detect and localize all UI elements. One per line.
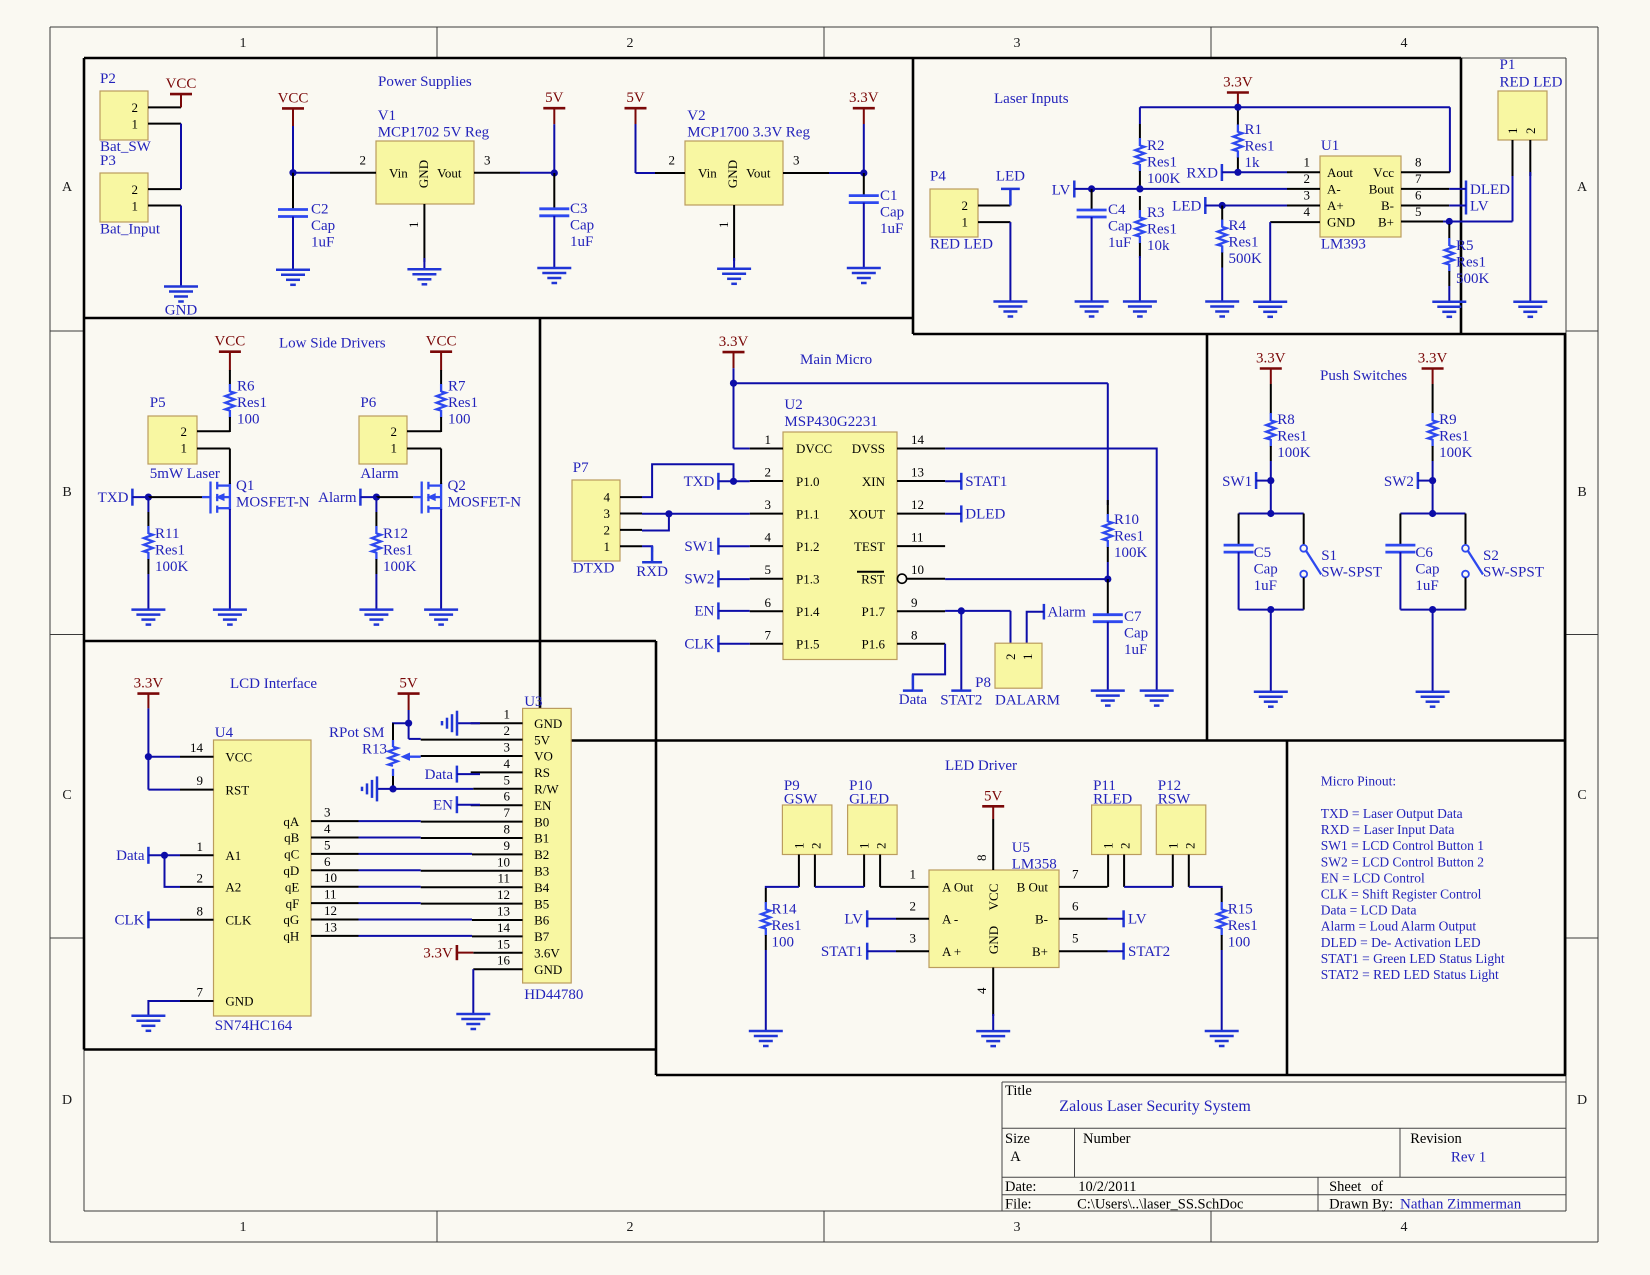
pin 2 [421, 739, 523, 741]
svg-text:Data: Data [899, 692, 928, 708]
wire P4.1 to ground [1009, 222, 1011, 301]
pin 12 [421, 903, 523, 905]
port DLED [945, 505, 1005, 522]
wire C7 to ground [1107, 622, 1109, 691]
svg-text:A: A [62, 180, 73, 195]
svg-text:1: 1 [857, 843, 872, 850]
port TXD [98, 489, 152, 506]
svg-text:Rev 1: Rev 1 [1451, 1150, 1486, 1166]
svg-text:Vin: Vin [698, 166, 717, 181]
wire U5 GND to ground [992, 1014, 994, 1031]
connector P1 RED LED [1498, 57, 1563, 176]
svg-text:8: 8 [504, 822, 511, 837]
svg-text:Res1: Res1 [1228, 918, 1258, 934]
connector P5 5mW Laser [148, 395, 230, 482]
svg-text:B: B [1577, 485, 1586, 500]
pin 3 [896, 950, 929, 952]
ground [407, 269, 441, 284]
svg-text:1: 1 [716, 222, 731, 229]
svg-text:1: 1 [391, 441, 398, 456]
wire R3 to ground [1139, 256, 1141, 302]
svg-text:LV: LV [1052, 182, 1071, 198]
svg-text:qF: qF [286, 896, 300, 911]
svg-text:B3: B3 [534, 864, 549, 879]
svg-text:GSW: GSW [784, 792, 818, 808]
pin 5 [473, 788, 522, 790]
wire U1 GND to ground [1269, 222, 1271, 302]
svg-text:5: 5 [504, 772, 511, 787]
pin 11 [897, 545, 945, 547]
wire qG to B6 [359, 919, 473, 921]
resistor R12 [372, 512, 381, 574]
connector P12 RSW [1156, 778, 1206, 887]
port LV [1449, 198, 1489, 215]
svg-text:VCC: VCC [278, 90, 309, 106]
svg-text:B4: B4 [534, 880, 550, 895]
svg-text:Size: Size [1005, 1131, 1030, 1147]
svg-text:Drawn By:: Drawn By: [1329, 1197, 1393, 1213]
svg-text:2: 2 [627, 1220, 634, 1235]
wire qC to B2 [359, 853, 473, 855]
svg-text:4: 4 [765, 530, 772, 545]
pin 12 [897, 513, 945, 515]
pin 1 [471, 722, 523, 724]
port CLK [115, 911, 181, 928]
resistor R2 [1135, 124, 1144, 186]
svg-text:GND: GND [1327, 215, 1355, 230]
resistor R5 [1445, 224, 1454, 286]
svg-text:500K: 500K [1229, 251, 1263, 267]
svg-text:qE: qE [285, 879, 300, 894]
svg-text:R2: R2 [1147, 138, 1165, 154]
svg-text:3.3V: 3.3V [719, 334, 749, 350]
svg-text:11: 11 [911, 530, 924, 545]
svg-text:B7: B7 [534, 929, 550, 944]
wire R10 to RST node [1107, 562, 1109, 579]
svg-text:VCC: VCC [166, 76, 197, 92]
port SW2 [1384, 472, 1436, 490]
svg-text:EN: EN [694, 604, 714, 620]
svg-text:C4: C4 [1108, 202, 1126, 218]
svg-text:C5: C5 [1254, 545, 1272, 561]
capacitor C4 [1091, 189, 1093, 210]
svg-text:3: 3 [604, 506, 611, 521]
svg-text:B1: B1 [534, 831, 549, 846]
pin 13 [472, 919, 523, 921]
connector P8 DALARM [975, 643, 1060, 708]
port Data [425, 766, 480, 784]
wire qF to B5 [359, 902, 421, 904]
port EN [694, 602, 749, 619]
pin 1 [1287, 171, 1320, 173]
svg-text:SW2 = LCD Control Button 2: SW2 = LCD Control Button 2 [1321, 854, 1484, 869]
port CLK [684, 635, 749, 652]
wire R4 to ground [1221, 268, 1223, 302]
svg-text:P1.0: P1.0 [796, 474, 819, 489]
svg-text:STAT1 = Green LED Status Light: STAT1 = Green LED Status Light [1321, 951, 1505, 966]
wire U3 pin1 to earth [457, 722, 480, 724]
svg-text:2: 2 [132, 182, 139, 197]
svg-text:2: 2 [1118, 843, 1133, 850]
svg-text:MCP1702 5V Reg: MCP1702 5V Reg [378, 125, 490, 141]
svg-text:LED Driver: LED Driver [945, 758, 1017, 774]
svg-text:12: 12 [911, 497, 924, 512]
svg-text:Res1: Res1 [237, 395, 267, 411]
svg-text:P8: P8 [975, 675, 991, 691]
wire DVSS run [945, 449, 1157, 691]
svg-text:2: 2 [604, 522, 611, 537]
svg-text:100: 100 [448, 412, 471, 428]
svg-text:MOSFET-N: MOSFET-N [448, 495, 522, 511]
svg-text:RXD: RXD [1186, 165, 1218, 181]
svg-text:1uF: 1uF [311, 235, 334, 251]
svg-text:RXD: RXD [636, 564, 668, 580]
svg-text:P4: P4 [930, 169, 946, 185]
ground [359, 610, 393, 625]
svg-text:2: 2 [132, 100, 139, 115]
svg-text:DLED = De- Activation LED: DLED = De- Activation LED [1321, 935, 1481, 950]
pin 4 [471, 771, 523, 773]
svg-text:4: 4 [604, 490, 611, 505]
svg-text:3: 3 [1014, 1220, 1021, 1235]
wire C4 to ground [1091, 217, 1093, 302]
resistor R11 [144, 512, 153, 574]
svg-text:3.3V: 3.3V [134, 676, 164, 692]
wire P1.6 to Data stub [913, 644, 945, 685]
svg-text:2: 2 [504, 723, 511, 738]
pin 2 [620, 529, 642, 531]
svg-text:SW1: SW1 [1222, 474, 1252, 490]
svg-text:2: 2 [181, 424, 188, 439]
power port 3.3V [1418, 351, 1448, 385]
wire U4 GND to ground [148, 1001, 180, 1016]
svg-text:8: 8 [911, 627, 918, 642]
svg-text:SW2: SW2 [684, 572, 714, 588]
svg-text:14: 14 [190, 740, 204, 755]
svg-text:DVCC: DVCC [796, 441, 832, 456]
svg-text:Cap: Cap [880, 205, 904, 221]
pin 4 [311, 837, 359, 839]
svg-text:Cap: Cap [1415, 562, 1439, 578]
svg-text:Push Switches: Push Switches [1320, 368, 1407, 384]
svg-text:of: of [1371, 1179, 1383, 1195]
svg-text:2: 2 [360, 153, 367, 168]
svg-text:qH: qH [283, 929, 299, 944]
wire Q1 source to ground [229, 509, 231, 610]
svg-text:R4: R4 [1229, 218, 1247, 234]
wire qH to B7 [359, 935, 473, 937]
svg-text:1uF: 1uF [1108, 235, 1131, 251]
svg-text:XIN: XIN [862, 474, 886, 489]
svg-text:P6: P6 [360, 395, 376, 411]
svg-text:A: A [1010, 1149, 1021, 1165]
wire P5.1 to Q1 drain [229, 449, 231, 485]
svg-text:A +: A + [942, 944, 961, 959]
pin 11 [421, 886, 523, 888]
pin 2 [655, 172, 685, 174]
wire R8 to SW1 node [1270, 461, 1272, 481]
svg-text:Cap: Cap [1124, 626, 1148, 642]
svg-text:3.3V: 3.3V [1223, 75, 1253, 91]
svg-text:STAT1: STAT1 [821, 944, 863, 960]
capacitor C2 plates [278, 210, 308, 217]
pin 2 [180, 886, 214, 888]
pin 3 [750, 513, 783, 515]
port Alarm [1027, 604, 1086, 643]
IC U2 MSP430G2231 [750, 397, 945, 660]
wire qB to B1 [359, 837, 421, 839]
svg-text:11: 11 [324, 887, 337, 902]
IC U3 HD44780 [421, 694, 584, 1003]
svg-text:RPot SM: RPot SM [329, 725, 384, 741]
power port VCC [214, 334, 245, 371]
ground [213, 610, 247, 625]
port Data stub [899, 674, 928, 708]
port LV [844, 910, 896, 927]
svg-text:R15: R15 [1228, 902, 1253, 918]
svg-text:GND: GND [986, 926, 1001, 954]
svg-text:LED: LED [996, 169, 1025, 185]
svg-text:R8: R8 [1277, 412, 1295, 428]
svg-text:6: 6 [504, 789, 511, 804]
svg-text:7: 7 [504, 805, 511, 820]
resistor R15 [1217, 888, 1226, 950]
svg-text:1: 1 [504, 707, 511, 722]
svg-text:5: 5 [1072, 931, 1079, 946]
port TXD [684, 473, 750, 490]
wire 5V node [393, 710, 421, 740]
svg-text:A -: A - [942, 912, 958, 927]
svg-text:RST: RST [861, 571, 885, 586]
svg-text:Micro Pinout:: Micro Pinout: [1321, 773, 1396, 788]
wire R12 to ground [375, 497, 377, 512]
port RXD stub [636, 546, 668, 580]
wire parallel bus bottom [1239, 606, 1304, 692]
wire P2.1 to P3.2 [180, 124, 182, 190]
svg-text:4: 4 [504, 756, 511, 771]
svg-text:GND: GND [534, 962, 562, 977]
resistor R6 [225, 370, 234, 432]
pin 2 [1188, 855, 1190, 887]
pin 6 [471, 804, 523, 806]
pin 14 [897, 448, 945, 450]
pin 6 [1401, 205, 1449, 207]
wire P9.1 to R14 [766, 887, 799, 888]
svg-text:5: 5 [324, 837, 331, 852]
svg-text:B+: B+ [1378, 215, 1394, 230]
svg-text:LED: LED [1172, 199, 1201, 215]
svg-text:7: 7 [1415, 171, 1422, 186]
power port 3.3V [719, 334, 749, 368]
svg-text:Data: Data [425, 767, 454, 783]
wire Q2 source to ground [440, 509, 442, 610]
pin 2 [330, 172, 376, 174]
svg-text:VCC: VCC [986, 884, 1001, 911]
svg-text:Zalous Laser Security System: Zalous Laser Security System [1059, 1098, 1251, 1115]
power port 3.3V [134, 676, 164, 709]
svg-text:Cap: Cap [1254, 562, 1278, 578]
svg-text:1k: 1k [1245, 155, 1261, 171]
svg-text:Res1: Res1 [155, 543, 185, 559]
svg-text:Date:: Date: [1005, 1179, 1036, 1195]
svg-text:B Out: B Out [1017, 880, 1049, 895]
ground [1432, 302, 1466, 317]
note Micro Pinout [1321, 773, 1505, 982]
svg-text:5: 5 [765, 562, 772, 577]
svg-text:1: 1 [1101, 843, 1116, 850]
svg-text:100K: 100K [155, 559, 189, 575]
capacitor C7 [1107, 579, 1109, 615]
svg-text:3: 3 [793, 153, 800, 168]
svg-text:B-: B- [1381, 198, 1394, 213]
svg-text:GND: GND [225, 994, 253, 1009]
pin 7 [421, 821, 523, 823]
svg-text:2: 2 [1182, 843, 1197, 850]
svg-text:1: 1 [240, 1220, 247, 1235]
svg-text:R11: R11 [155, 526, 179, 542]
svg-text:Main Micro: Main Micro [800, 352, 872, 368]
svg-text:C: C [62, 788, 71, 803]
pin 1 [180, 854, 214, 856]
port STAT1 [821, 943, 896, 960]
svg-text:5V: 5V [399, 676, 418, 692]
svg-text:S1: S1 [1321, 548, 1337, 564]
power port VCC [278, 90, 309, 126]
svg-text:DLED: DLED [1470, 182, 1510, 198]
svg-text:Vin: Vin [389, 166, 408, 181]
svg-text:RLED: RLED [1093, 792, 1132, 808]
svg-text:Q1: Q1 [236, 478, 254, 494]
pin 3 [1287, 205, 1320, 207]
pin 4 [1270, 221, 1320, 223]
pin 2 [1529, 140, 1531, 176]
svg-text:V2: V2 [687, 108, 705, 124]
svg-text:GND: GND [725, 160, 740, 188]
pin 3 [421, 755, 523, 757]
svg-text:TEST: TEST [854, 539, 885, 554]
svg-text:5V: 5V [626, 90, 645, 106]
svg-text:5V: 5V [534, 732, 551, 747]
svg-text:1: 1 [240, 36, 247, 51]
wire V2 Vout to 3.3V node [829, 169, 867, 176]
svg-text:A2: A2 [225, 880, 241, 895]
switch S2 SW-SPST [1462, 514, 1544, 610]
port LED [1172, 197, 1287, 215]
power port 3.3V [1256, 351, 1286, 385]
svg-text:A-: A- [1327, 182, 1341, 197]
svg-text:Cap: Cap [570, 218, 594, 234]
pin 1 [1512, 140, 1514, 176]
svg-text:B+: B+ [1032, 944, 1048, 959]
svg-text:3: 3 [1304, 188, 1311, 203]
connector P11 RLED [1092, 778, 1142, 887]
svg-text:100K: 100K [1439, 445, 1473, 461]
wire SW2 node to bus [1432, 481, 1434, 514]
pin 10 [421, 870, 523, 872]
svg-text:13: 13 [497, 904, 510, 919]
svg-text:Vcc: Vcc [1373, 165, 1394, 180]
pin 10 [311, 886, 359, 888]
port LV [1108, 910, 1147, 927]
svg-text:CLK: CLK [225, 913, 252, 928]
svg-text:P3: P3 [100, 153, 116, 169]
wire P10.2 to A Out [880, 886, 929, 888]
pin 9 [897, 610, 945, 612]
svg-text:CLK = Shift Register Control: CLK = Shift Register Control [1321, 887, 1482, 902]
svg-text:RSW: RSW [1158, 792, 1191, 808]
svg-text:C1: C1 [880, 188, 898, 204]
wire R11 to ground [147, 497, 149, 512]
svg-text:1: 1 [604, 539, 611, 554]
pin 8 [421, 837, 523, 839]
resistor R10 [1103, 500, 1112, 562]
svg-text:RED LED: RED LED [930, 237, 993, 253]
svg-text:1: 1 [1020, 654, 1035, 661]
pin 2 [814, 855, 816, 887]
svg-text:2: 2 [962, 198, 969, 213]
svg-text:100: 100 [237, 412, 260, 428]
pin 9 [472, 853, 523, 855]
svg-text:P1.1: P1.1 [796, 506, 819, 521]
svg-text:HD44780: HD44780 [524, 987, 583, 1003]
svg-text:500K: 500K [1456, 271, 1490, 287]
svg-text:MCP1700 3.3V Reg: MCP1700 3.3V Reg [687, 125, 810, 141]
svg-text:B-: B- [1035, 912, 1048, 927]
wire P7.4 to TXD node [642, 464, 734, 497]
ground [1091, 691, 1125, 706]
svg-text:10: 10 [497, 854, 510, 869]
regulator V1 MCP1702 [330, 108, 520, 262]
svg-text:TXD: TXD [684, 474, 715, 490]
svg-text:B2: B2 [534, 847, 549, 862]
connector P9 GSW [782, 778, 832, 887]
port DLED [1449, 181, 1510, 198]
ground [1123, 302, 1157, 317]
svg-text:VCC: VCC [426, 334, 457, 350]
svg-text:R12: R12 [383, 526, 408, 542]
wire V2 GND to ground [733, 258, 735, 269]
svg-text:LV: LV [844, 912, 863, 928]
resistor R9 [1428, 399, 1437, 461]
wire C3 to ground [553, 216, 555, 268]
svg-text:Alarm: Alarm [360, 466, 399, 482]
port Data [116, 847, 180, 864]
svg-text:Cap: Cap [1108, 219, 1132, 235]
ground [976, 1031, 1010, 1046]
svg-text:GND: GND [416, 160, 431, 188]
ground [847, 268, 881, 283]
svg-text:A: A [1577, 180, 1588, 195]
svg-text:SW-SPST: SW-SPST [1483, 565, 1544, 581]
wire P9.2 to P10.1 [815, 886, 864, 888]
svg-text:C:\Users\..\laser_SS.SchDoc: C:\Users\..\laser_SS.SchDoc [1077, 1197, 1243, 1213]
wire B+ node [1443, 174, 1513, 225]
wire V1 Vout to 5V node [520, 169, 558, 176]
svg-text:CLK: CLK [684, 636, 714, 652]
port EN [433, 796, 480, 814]
ground GND [164, 287, 198, 302]
capacitor C5 [1238, 514, 1240, 546]
svg-text:R1: R1 [1245, 122, 1263, 138]
pin 1 [620, 545, 642, 547]
svg-text:100: 100 [1228, 935, 1251, 951]
wire U3 pin16 to ground [472, 969, 474, 1014]
svg-text:U4: U4 [215, 725, 234, 741]
wire R14 to ground [765, 950, 767, 1031]
svg-text:8: 8 [974, 855, 989, 862]
wire qD to B3 [359, 869, 421, 871]
svg-text:1: 1 [181, 441, 188, 456]
